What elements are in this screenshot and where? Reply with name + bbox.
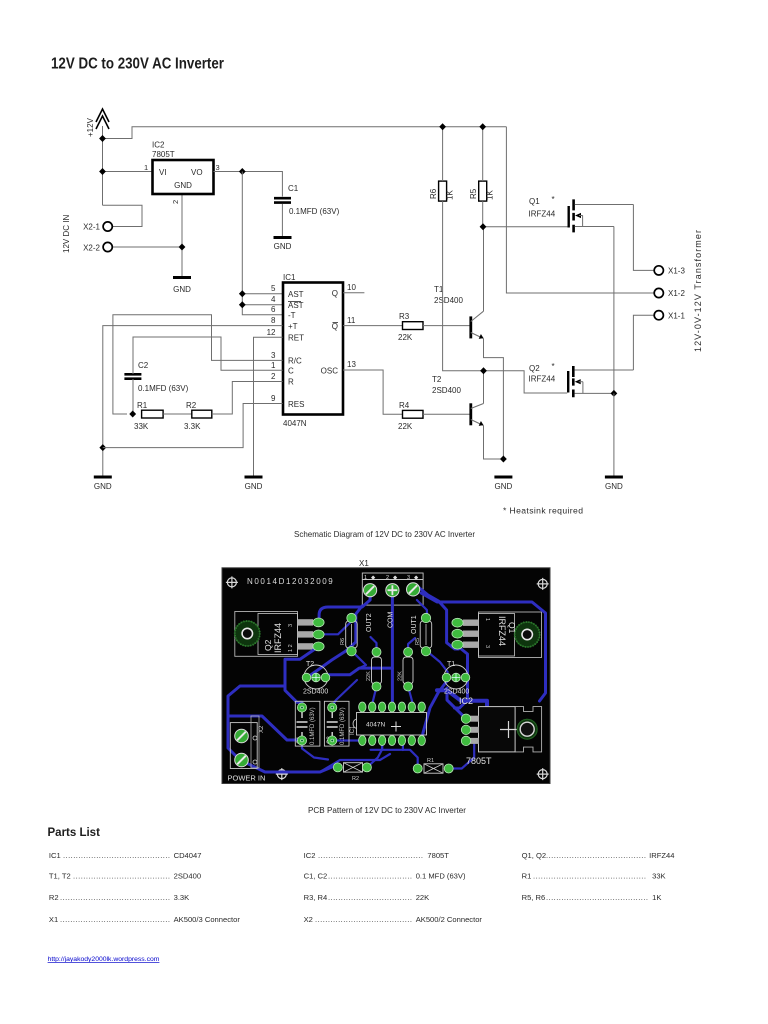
svg-text:IC1: IC1 <box>350 725 356 735</box>
mosfet Q1 footprint <box>463 612 542 658</box>
trace Q1 to IC2 feed <box>455 646 468 708</box>
oscillator IC1 <box>283 273 343 428</box>
trace powerin to C1 <box>228 716 302 740</box>
pads R2 <box>333 763 371 772</box>
svg-text:R1: R1 <box>137 401 148 410</box>
node junction pin8/RES gnd <box>99 444 106 451</box>
wire pin12 RET to ground <box>254 337 283 476</box>
ground under C1 <box>274 238 292 252</box>
trace X1-1 to Q2 pad <box>319 592 370 622</box>
svg-text:3: 3 <box>484 645 490 648</box>
svg-text:*: * <box>552 362 555 371</box>
pads R5 <box>421 613 430 656</box>
svg-text:T1, T2: T1, T2 <box>49 872 71 881</box>
fiducial bottom left <box>276 768 288 780</box>
svg-text:Schematic Diagram of 12V DC to: Schematic Diagram of 12V DC to 230V AC I… <box>294 529 475 539</box>
svg-text:X2: X2 <box>304 915 313 924</box>
svg-text:R5, R6: R5, R6 <box>522 893 546 902</box>
svg-text:AST: AST <box>288 301 304 310</box>
svg-text:1K: 1K <box>652 893 661 902</box>
wire rail to X2-1 <box>103 205 143 226</box>
svg-text:..............................: ...................................... <box>73 872 170 881</box>
mosfet Q1 <box>529 195 634 232</box>
svg-text:6: 6 <box>271 305 276 314</box>
svg-text:OUT1: OUT1 <box>411 615 418 634</box>
wire IC2 VO to C1 <box>214 172 283 197</box>
wire pin10 stub <box>343 292 364 294</box>
node junction +12V/top-rail <box>99 135 106 142</box>
trace IC2 loop <box>437 690 487 730</box>
node junction R5/T1 collector <box>480 223 487 230</box>
pin number labels IC1 left <box>267 284 276 403</box>
wire pin9 RES to ground net <box>103 404 283 448</box>
svg-text:IC1: IC1 <box>49 851 61 860</box>
svg-text:GND: GND <box>173 285 191 294</box>
node junction pin5 <box>239 290 246 297</box>
svg-text:..............................: ........................................… <box>63 851 170 860</box>
svg-text:3: 3 <box>407 575 410 581</box>
transistor footprint T2 <box>303 661 328 696</box>
svg-text:1: 1 <box>271 361 276 370</box>
fiducial top left <box>226 576 238 588</box>
wire T1 emitter down <box>484 339 504 460</box>
note heatsink <box>503 506 583 516</box>
svg-text:RET: RET <box>288 334 304 343</box>
svg-text:+T: +T <box>288 322 298 331</box>
svg-text:0.1MFD (63V): 0.1MFD (63V) <box>289 207 340 216</box>
wire Q1 source down <box>613 227 615 394</box>
trace C1 bottom down <box>302 741 328 760</box>
pads C1 <box>297 703 306 745</box>
title <box>51 56 224 73</box>
+12V supply arrow <box>96 109 109 129</box>
pin 1 label IC2 <box>144 163 148 172</box>
ground under IC1 <box>245 477 263 491</box>
svg-text:7805T: 7805T <box>427 851 449 860</box>
svg-text:AK500/3 Connector: AK500/3 Connector <box>174 915 241 924</box>
svg-text:R2: R2 <box>186 401 197 410</box>
trace Q2 to R6 <box>319 617 352 634</box>
pads R4 <box>372 648 381 692</box>
svg-text:10: 10 <box>347 283 356 292</box>
wire R3 to T1 base <box>423 325 470 327</box>
svg-text:-T: -T <box>288 311 296 320</box>
pin 2 label IC2 <box>171 200 180 204</box>
X1 terminal 1 <box>364 584 377 597</box>
svg-text:12V-0V-12V Transformer: 12V-0V-12V Transformer <box>693 230 703 352</box>
svg-text:R3: R3 <box>399 312 410 321</box>
svg-text:Q1: Q1 <box>529 197 540 206</box>
svg-text:R5: R5 <box>469 188 478 199</box>
resistor R1 <box>134 401 163 431</box>
node junction X2-2/GND <box>179 244 186 251</box>
svg-text:R4: R4 <box>399 401 410 410</box>
svg-text:33K: 33K <box>134 422 149 431</box>
svg-text:22K: 22K <box>398 422 413 431</box>
X2 terminal 1 <box>235 729 249 743</box>
wire T1 collector up to R5 node <box>483 227 485 312</box>
parts row IC1 <box>49 851 202 860</box>
node junction R6/T2 collector <box>480 367 487 374</box>
svg-text:0.1 MFD (63V): 0.1 MFD (63V) <box>416 872 466 881</box>
svg-text:2SD400: 2SD400 <box>303 689 328 696</box>
parts row T1 T2 <box>49 872 201 881</box>
ground bottom left <box>94 477 112 491</box>
wire Q1 drain to X1-3 <box>633 205 653 271</box>
node junction +12V/IC2 <box>99 168 106 175</box>
wire pin4 <box>242 304 282 306</box>
resistor R2 <box>184 401 212 431</box>
X2 terminal 2 <box>235 753 249 767</box>
svg-text:X1-3: X1-3 <box>668 267 685 276</box>
svg-text:22K: 22K <box>398 333 413 342</box>
trace X1-1 branch down <box>307 606 363 678</box>
capacitor C2 <box>124 361 188 393</box>
trace X1-3 to Q1 <box>417 586 459 649</box>
svg-text:T2: T2 <box>432 375 442 384</box>
svg-text:X2-2: X2-2 <box>83 244 100 253</box>
svg-text:9: 9 <box>271 394 276 403</box>
svg-text:GND: GND <box>245 482 263 491</box>
parts row X1 <box>49 915 240 924</box>
trace R4 top stub <box>371 637 377 652</box>
pads T1 <box>442 673 470 682</box>
svg-text:8: 8 <box>271 316 276 325</box>
silkscreen OUT1 <box>411 615 418 634</box>
svg-text:http://jayakody2000lk.wordpres: http://jayakody2000lk.wordpress.com <box>48 956 160 963</box>
svg-text:RES: RES <box>288 400 304 409</box>
svg-text:Q1: Q1 <box>507 622 517 634</box>
trace R1 left bus <box>371 750 418 769</box>
wire +12V to IC2 VI <box>103 171 153 173</box>
ic footprint IC1 4047 <box>350 713 427 736</box>
svg-text:4: 4 <box>271 295 276 304</box>
wire R4 to T2 base <box>423 413 470 415</box>
svg-text:AST: AST <box>288 290 304 299</box>
resistor R6 <box>429 181 455 201</box>
connector X2 POWER IN footprint <box>228 716 266 783</box>
pads R6 <box>347 613 356 656</box>
voltage regulator IC2 <box>152 141 214 195</box>
trace ic1 stub a <box>381 744 383 750</box>
svg-text:C2: C2 <box>138 361 149 370</box>
wire R5 bottom to Q1 gate <box>483 201 568 227</box>
svg-text:IC2: IC2 <box>152 141 165 150</box>
svg-text:IC2: IC2 <box>304 851 316 860</box>
wire sources to ground <box>613 393 615 476</box>
svg-text:2: 2 <box>386 575 389 581</box>
svg-text:3: 3 <box>271 351 276 360</box>
wire T2 emitter down <box>484 426 504 460</box>
trace R4 to IC1 <box>373 687 377 703</box>
wire C1 to ground <box>281 204 283 236</box>
svg-text:T1: T1 <box>447 661 455 668</box>
svg-text:T2: T2 <box>306 661 314 668</box>
svg-text:R6: R6 <box>429 188 438 199</box>
parts list heading <box>48 827 101 839</box>
svg-text:R1: R1 <box>522 872 532 881</box>
trace left edge wrap <box>228 686 332 772</box>
resistor footprint R6 <box>340 621 357 648</box>
ground under IC2 <box>173 278 191 295</box>
wire +12V to top rail <box>103 127 507 139</box>
trace R5 top stub <box>417 600 427 618</box>
resistor R4 <box>398 401 423 431</box>
pin number labels IC1 right <box>347 283 356 369</box>
trace X1-2 branch to T2 <box>328 668 392 675</box>
svg-text:3: 3 <box>216 163 220 172</box>
svg-text:X1: X1 <box>49 915 58 924</box>
svg-text:2SD400: 2SD400 <box>444 689 469 696</box>
trace Q2 pad3 down to C1 <box>285 646 319 702</box>
svg-text:X1: X1 <box>359 559 369 568</box>
wire pin13 OSC to R4 <box>343 370 403 414</box>
svg-text:11: 11 <box>347 316 356 325</box>
parts row R1 <box>522 872 666 881</box>
svg-text:..............................: ........................................… <box>318 851 423 860</box>
svg-text:Q1, Q2: Q1, Q2 <box>522 851 546 860</box>
svg-text:7805T: 7805T <box>152 150 175 159</box>
trace R3 top stub <box>408 638 415 652</box>
regulator footprint IC2 7805 <box>459 696 542 766</box>
ground under mosfets <box>605 477 623 491</box>
svg-text:COM: COM <box>388 612 395 629</box>
svg-text:R1: R1 <box>427 758 434 764</box>
svg-text:CD4047: CD4047 <box>174 851 202 860</box>
svg-text:Q: Q <box>332 322 338 331</box>
parts row R3 R4 <box>304 893 430 902</box>
ground under transistors <box>494 477 512 491</box>
wire R6 bottom to T2 collector node and Q2 gate <box>443 201 568 393</box>
svg-text:PCB Pattern of 12V DC to 230V: PCB Pattern of 12V DC to 230V AC Inverte… <box>308 805 466 815</box>
+12V label <box>86 117 95 137</box>
trace R5 to T1 <box>427 651 448 672</box>
svg-text:1: 1 <box>484 618 490 621</box>
pads T2 <box>302 673 330 682</box>
trace bottom bus <box>320 754 390 772</box>
svg-text:GND: GND <box>174 181 192 190</box>
wire +12V rail to X1-2 <box>506 127 653 293</box>
svg-text:22K: 22K <box>416 893 430 902</box>
pads Q1 <box>452 618 463 649</box>
svg-text:IRFZ44: IRFZ44 <box>649 851 674 860</box>
transistor footprint T1 <box>444 661 469 696</box>
svg-text:..............................: ....................................... <box>546 851 646 860</box>
svg-text:22K: 22K <box>398 671 404 681</box>
node junction pin4 <box>239 301 246 308</box>
svg-text:4047N: 4047N <box>283 419 307 428</box>
svg-text:X2-1: X2-1 <box>83 223 100 232</box>
svg-text:0.1MFD (63V): 0.1MFD (63V) <box>310 707 316 745</box>
capacitor footprint C2 <box>324 701 349 746</box>
caption pcb <box>308 805 466 815</box>
node junction Q1/Q2 source <box>611 390 618 397</box>
wire pin3 RC to C2 bottom node <box>113 315 283 414</box>
svg-text:..............................: ........................................… <box>533 872 646 881</box>
svg-text:C1: C1 <box>288 184 299 193</box>
fiducial bottom right <box>537 768 549 780</box>
svg-text:R2: R2 <box>49 893 59 902</box>
wire pin5 <box>242 293 282 295</box>
silkscreen OUT2 <box>366 613 373 632</box>
svg-text:3: 3 <box>288 624 294 627</box>
svg-text:GND: GND <box>495 482 513 491</box>
label transformer <box>693 230 703 352</box>
svg-text:Q2: Q2 <box>529 364 540 373</box>
svg-text:Q2: Q2 <box>263 639 273 651</box>
svg-text:GND: GND <box>605 482 623 491</box>
svg-text:IC2: IC2 <box>459 696 473 706</box>
X1 terminal 3 <box>407 583 420 596</box>
svg-text:..............................: ................................. <box>328 893 412 902</box>
transistor T2 <box>432 375 484 426</box>
svg-text:C1, C2: C1, C2 <box>304 872 328 881</box>
svg-text:IC1: IC1 <box>283 273 296 282</box>
svg-text:1K: 1K <box>446 190 455 200</box>
svg-text:Parts List: Parts List <box>48 827 101 839</box>
mosfet Q2 <box>529 362 634 397</box>
connector X2-2 <box>83 242 112 252</box>
trace ic1 stub b <box>402 744 404 750</box>
svg-text:X2: X2 <box>259 725 265 733</box>
svg-text:C: C <box>288 367 294 376</box>
resistor R3 <box>398 312 423 342</box>
wire R5 top to rail <box>482 127 484 181</box>
svg-text:Q: Q <box>332 289 338 298</box>
svg-text:POWER IN: POWER IN <box>228 774 266 783</box>
trace C2 to IC1 <box>332 739 361 741</box>
caption schematic <box>294 529 475 539</box>
connector X1-2 <box>654 288 685 298</box>
svg-text:1: 1 <box>364 575 367 581</box>
connector X1-1 <box>654 311 685 321</box>
trace T2 to C2 <box>332 680 357 706</box>
svg-text:0.1MFD (63V): 0.1MFD (63V) <box>138 384 189 393</box>
svg-text:* Heatsink required: * Heatsink required <box>503 506 583 516</box>
resistor footprint R5 <box>415 621 432 648</box>
pads Q2 <box>313 618 324 651</box>
svg-text:GND: GND <box>94 482 112 491</box>
svg-text:..............................: ........................................… <box>60 915 170 924</box>
svg-text:+12V: +12V <box>86 117 95 137</box>
svg-text:33K: 33K <box>652 872 666 881</box>
svg-text:R2: R2 <box>352 776 359 782</box>
node junction R5/rail <box>479 123 486 130</box>
svg-text:2SD400: 2SD400 <box>174 872 201 881</box>
wire X2-2 to IC2 GND net <box>113 246 182 248</box>
svg-text:12V DC to 230V AC Inverter: 12V DC to 230V AC Inverter <box>51 56 224 73</box>
pads R1 <box>413 764 453 773</box>
pads IC1 top row <box>359 702 426 712</box>
pads IC2 <box>461 714 470 746</box>
trace R2 to IC1 <box>367 744 382 767</box>
svg-text:..............................: ........................................… <box>60 893 170 902</box>
pin 3 label IC2 <box>216 163 220 172</box>
svg-text:VI: VI <box>159 168 167 177</box>
svg-text:2: 2 <box>171 200 180 204</box>
parts row R2 <box>49 893 189 902</box>
label 12V DC IN <box>62 215 71 253</box>
wire +12V rail vertical <box>102 126 104 205</box>
svg-text:N0014D12032009: N0014D12032009 <box>247 577 334 586</box>
connector X1-3 <box>654 266 685 276</box>
svg-text:22K: 22K <box>366 671 372 681</box>
node junction emitters <box>500 456 507 463</box>
wire T2 collector up <box>483 371 485 404</box>
trace X1-2 down center <box>391 592 394 707</box>
svg-text:2SD400: 2SD400 <box>434 296 463 305</box>
svg-text:12V DC IN: 12V DC IN <box>62 215 71 253</box>
silkscreen board id <box>247 577 334 586</box>
svg-text:7805T: 7805T <box>466 756 492 766</box>
trace R1 to IC2 <box>449 744 475 769</box>
svg-text:3.3K: 3.3K <box>184 422 201 431</box>
silkscreen COM <box>388 612 395 629</box>
wire R6 top to rail <box>442 127 444 181</box>
svg-text:2SD400: 2SD400 <box>432 386 461 395</box>
svg-text:AK500/2 Connector: AK500/2 Connector <box>416 915 483 924</box>
svg-text:1K: 1K <box>486 190 495 200</box>
X1 terminal 2 <box>386 584 399 597</box>
svg-text:OUT2: OUT2 <box>366 613 373 632</box>
svg-text:OSC: OSC <box>321 367 339 376</box>
svg-text:R6: R6 <box>340 638 346 645</box>
trace IC2 pad1 to T1 <box>447 688 466 719</box>
wire pin8 to ground <box>103 326 283 476</box>
node junction C2/R1 <box>129 411 136 418</box>
svg-text:*: * <box>552 195 555 204</box>
parts row IC2 <box>304 851 450 860</box>
svg-text:X1-2: X1-2 <box>668 289 685 298</box>
svg-text:IRFZ44: IRFZ44 <box>529 375 556 384</box>
parts row R5 R6 <box>522 893 662 902</box>
svg-text:R5: R5 <box>415 638 421 645</box>
svg-text:VO: VO <box>191 168 203 177</box>
capacitor C1 <box>274 184 340 216</box>
X1 pin labels <box>364 575 419 581</box>
wire Vcc down to IC1 pins 5 4 6 <box>242 172 282 315</box>
resistor footprint R2 <box>344 763 363 782</box>
svg-text:IRFZ44: IRFZ44 <box>497 616 507 646</box>
svg-text:13: 13 <box>347 360 356 369</box>
trace right edge <box>421 593 546 701</box>
resistor footprint R1 <box>424 758 443 773</box>
resistor footprint R3 <box>398 657 414 684</box>
svg-text:0.1MFD (63V): 0.1MFD (63V) <box>340 707 346 745</box>
wire R2 to pin2 R <box>212 382 283 415</box>
connector X2-1 <box>83 222 112 232</box>
wire C2 bottom <box>132 379 134 414</box>
parts row X2 <box>304 915 483 924</box>
svg-text:5: 5 <box>271 284 276 293</box>
mosfet Q2 footprint <box>235 612 313 657</box>
svg-text:12: 12 <box>267 328 276 337</box>
wire pin11 to R3 <box>343 325 403 327</box>
wire R1 to R2 <box>163 413 192 415</box>
svg-text:IRFZ44: IRFZ44 <box>273 623 283 653</box>
svg-text:R3, R4: R3, R4 <box>304 893 328 902</box>
node junction R6/rail <box>439 123 446 130</box>
trace R6 to T2 <box>352 651 366 668</box>
connector X1 footprint outline <box>362 573 423 605</box>
trace R3 to IC1 <box>408 687 412 703</box>
svg-text:1 2: 1 2 <box>288 644 294 652</box>
svg-text:..............................: ........................................ <box>546 893 648 902</box>
pcb board <box>222 568 550 784</box>
svg-text:X1-1: X1-1 <box>668 312 685 321</box>
capacitor footprint C1 <box>295 701 320 746</box>
svg-text:GND: GND <box>274 242 292 251</box>
